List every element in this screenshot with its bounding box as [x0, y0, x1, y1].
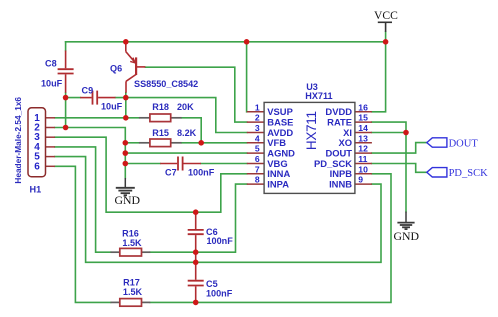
svg-text:H1: H1	[30, 185, 42, 195]
svg-text:1: 1	[255, 102, 260, 112]
svg-text:C7: C7	[165, 167, 177, 177]
svg-text:RATE: RATE	[327, 117, 352, 128]
svg-text:C8: C8	[45, 59, 57, 69]
svg-text:Q6: Q6	[110, 63, 122, 73]
svg-text:8.2K: 8.2K	[177, 128, 197, 138]
svg-text:12: 12	[358, 144, 368, 154]
svg-text:5: 5	[255, 144, 260, 154]
svg-text:10uF: 10uF	[41, 79, 63, 89]
svg-text:HX711: HX711	[304, 111, 319, 150]
svg-text:Header-Male-2.54_1x6: Header-Male-2.54_1x6	[13, 97, 23, 184]
svg-text:1.5K: 1.5K	[123, 287, 143, 297]
svg-text:PD_SCK: PD_SCK	[449, 168, 489, 179]
svg-text:16: 16	[358, 102, 368, 112]
svg-text:VCC: VCC	[374, 9, 398, 22]
svg-text:DOUT: DOUT	[449, 139, 479, 150]
svg-text:9: 9	[358, 175, 363, 185]
svg-text:AGND: AGND	[267, 148, 295, 159]
svg-text:R17: R17	[123, 277, 140, 287]
svg-text:C5: C5	[206, 279, 218, 289]
svg-text:BASE: BASE	[267, 117, 293, 128]
svg-text:HX711: HX711	[305, 91, 332, 101]
svg-text:13: 13	[358, 133, 368, 143]
svg-text:DOUT: DOUT	[325, 148, 352, 159]
svg-text:100nF: 100nF	[207, 236, 234, 246]
svg-text:6: 6	[255, 154, 260, 164]
svg-text:10uF: 10uF	[101, 102, 123, 112]
svg-text:7: 7	[255, 164, 260, 174]
svg-text:4: 4	[255, 133, 260, 143]
svg-text:GND: GND	[115, 193, 141, 207]
svg-text:100nF: 100nF	[206, 288, 233, 298]
svg-text:14: 14	[358, 123, 368, 133]
svg-text:11: 11	[358, 154, 367, 164]
svg-text:10: 10	[358, 164, 368, 174]
svg-text:20K: 20K	[177, 102, 194, 112]
svg-text:INNB: INNB	[329, 179, 352, 190]
svg-text:3: 3	[255, 123, 260, 133]
svg-text:SS8550_C8542: SS8550_C8542	[134, 79, 198, 89]
svg-text:GND: GND	[394, 229, 420, 243]
svg-text:15: 15	[358, 113, 368, 123]
svg-text:R15: R15	[152, 128, 169, 138]
svg-text:100nF: 100nF	[188, 167, 215, 177]
svg-text:R18: R18	[152, 102, 169, 112]
svg-text:R16: R16	[122, 228, 139, 238]
svg-text:2: 2	[255, 113, 260, 123]
svg-text:6: 6	[34, 161, 40, 172]
svg-text:INPA: INPA	[267, 179, 289, 190]
svg-text:C9: C9	[82, 85, 94, 95]
svg-text:8: 8	[255, 175, 260, 185]
svg-text:1.5K: 1.5K	[122, 238, 142, 248]
